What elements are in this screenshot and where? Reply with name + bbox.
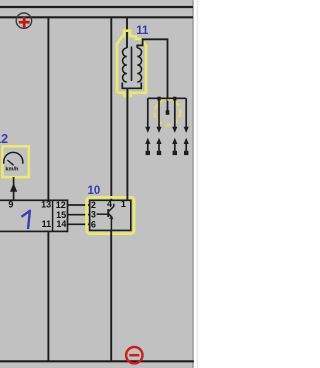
svg-text:1: 1	[121, 199, 126, 209]
spark plug 3	[172, 138, 177, 155]
battery plus terminal	[16, 13, 31, 28]
spark plug 4	[184, 138, 189, 155]
svg-text:14: 14	[56, 219, 66, 229]
window border right edge	[192, 0, 194, 368]
svg-text:10: 10	[88, 185, 101, 197]
wire coil common to component 10 pin 1	[126, 88, 128, 200]
svg-text:11: 11	[136, 25, 149, 37]
spark plug 2	[156, 138, 161, 155]
ground bus (bottom line)	[0, 360, 194, 362]
distributor cap contact a	[157, 97, 160, 101]
ignition coil highlight glow	[117, 31, 146, 98]
wire connector 14 to pin 6	[68, 223, 90, 225]
wire connector 15 to pin 3	[68, 214, 90, 216]
svg-text:11: 11	[42, 219, 52, 229]
svg-text:13: 13	[41, 199, 51, 209]
svg-text:12: 12	[56, 200, 66, 210]
wire bus15 to coil terminal 15	[126, 17, 128, 48]
svg-text:4: 4	[107, 199, 112, 209]
HT lead cylinder 2	[156, 101, 161, 133]
label 1 (control unit)	[22, 211, 30, 229]
HT lead cylinder 1	[145, 98, 150, 133]
component 1 control unit box	[0, 200, 68, 231]
component 10 switch unit box	[90, 200, 131, 230]
speedometer gauge component 2	[2, 146, 28, 177]
wire component 1 to ground bus	[47, 231, 49, 361]
wire component 10 to ground bus	[110, 230, 112, 361]
svg-text:km/h: km/h	[5, 166, 19, 172]
component 10 highlight glow	[87, 197, 135, 233]
wire bus 15 (second line)	[0, 16, 193, 18]
spark plug 1	[145, 138, 150, 155]
wire bus15 to component 10 pin 4	[110, 17, 112, 200]
svg-text:2: 2	[91, 200, 96, 210]
wire bus15 to component 1 pin 13	[47, 17, 49, 200]
distributor rotor electrode	[166, 110, 170, 115]
ignition coil component 11	[122, 47, 141, 89]
HT lead cylinder 3	[172, 101, 177, 133]
svg-text:12: 12	[0, 132, 8, 146]
wire speedometer to component 1 pin 9	[13, 177, 15, 200]
wire coil HT terminal 4 to distributor	[137, 39, 167, 110]
svg-text:3: 3	[91, 210, 96, 220]
svg-text:6: 6	[91, 219, 96, 229]
HT lead cylinder 4	[184, 98, 189, 133]
wire connector 12 to pin 2	[68, 204, 90, 206]
svg-text:9: 9	[8, 200, 13, 210]
distributor rotor highlight circle	[155, 99, 181, 125]
distributor cap lead rail	[148, 97, 186, 99]
battery minus terminal	[126, 347, 142, 363]
transistor Q1 inside component 10	[97, 204, 114, 231]
distributor cap contact b	[173, 97, 176, 101]
canvas background	[0, 0, 194, 368]
wire bus 30 (top line)	[0, 6, 193, 8]
current direction arrow	[10, 183, 17, 192]
